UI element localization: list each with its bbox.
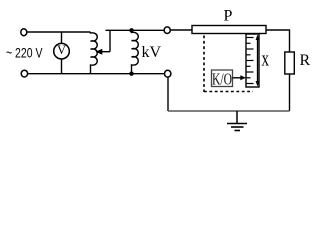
svg-text:P: P (224, 8, 233, 25)
svg-text:~ 220 V: ~ 220 V (6, 45, 43, 61)
svg-text:R: R (300, 52, 311, 69)
svg-text:kV: kV (142, 44, 162, 61)
svg-text:x: x (262, 47, 270, 72)
svg-text:K/O: K/O (212, 69, 232, 88)
svg-text:V: V (57, 43, 66, 57)
